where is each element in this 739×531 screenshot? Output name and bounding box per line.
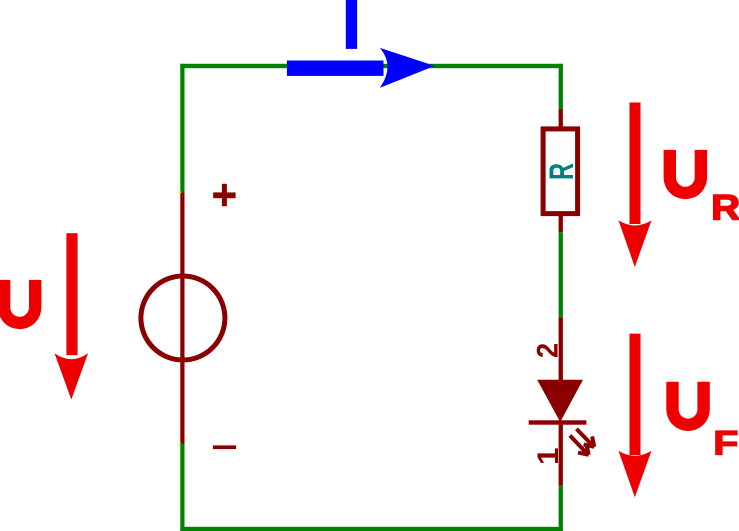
voltage source V1 circle: [141, 276, 225, 360]
label I (blue): [346, 0, 357, 49]
LED D1 triangle: [537, 380, 583, 422]
LED D1 pin 2 wire: [559, 317, 563, 380]
wire right middle vertical: [559, 232, 563, 317]
wire top horizontal: [180, 64, 563, 68]
wire bottom horizontal: [180, 527, 563, 531]
wire right upper vertical: [559, 64, 563, 109]
voltage arrow UR shaft: [630, 103, 641, 225]
label U of UR: [664, 150, 708, 199]
resistor R body: [543, 129, 578, 214]
svg-text:2: 2: [532, 343, 565, 358]
pin end dot lower: [179, 443, 181, 445]
current arrow I head (blue): [380, 48, 435, 88]
LED emission arrow a: [577, 429, 595, 447]
svg-text:R: R: [543, 163, 581, 180]
label U (left): [0, 280, 41, 329]
minus sign: [213, 445, 236, 449]
label U of UF: [666, 382, 710, 431]
voltage arrow U head: [55, 353, 89, 399]
wire left lower vertical: [180, 444, 184, 531]
voltage arrow UF shaft: [630, 334, 641, 456]
pin end dot upper: [179, 191, 181, 193]
voltage arrow UR head: [619, 220, 652, 267]
current arrow I body (blue): [287, 61, 384, 76]
voltage arrow U shaft (left): [66, 233, 77, 355]
LED D1 pin 1 wire: [559, 425, 563, 486]
resistor R pin 2 wire: [559, 216, 563, 232]
svg-text:R: R: [711, 188, 739, 228]
voltage arrow UF head: [619, 451, 652, 498]
svg-text:F: F: [713, 424, 738, 462]
battery V1 pin wire (left vertical, dark red): [180, 193, 184, 445]
LED emission arrow b: [570, 436, 589, 455]
wire left upper vertical: [180, 64, 184, 193]
wire right lower vertical: [559, 486, 563, 531]
plus sign: [213, 184, 235, 206]
LED D1 cathode bar: [529, 420, 587, 424]
resistor R pin 1 wire: [559, 109, 563, 127]
